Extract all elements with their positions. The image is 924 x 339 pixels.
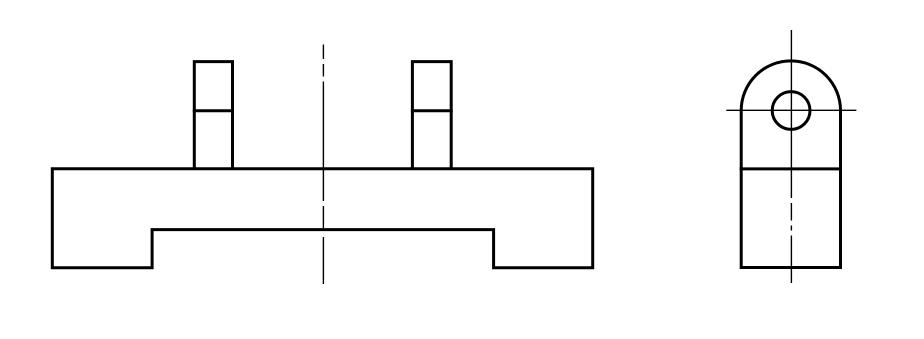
- front view: right post: [412, 62, 451, 169]
- front view: right post divider line: [411, 109, 453, 112]
- front view: base outline: [52, 169, 592, 268]
- side view: horizontal centerline through hole: [726, 109, 856, 111]
- front view: vertical centerline (dash-dot): [322, 45, 324, 285]
- front view: left post: [194, 62, 232, 169]
- side view: outline with semicircular top: [741, 61, 840, 268]
- front view: left post divider line: [193, 109, 234, 112]
- side view: vertical centerline (dash-dot): [790, 30, 792, 283]
- side view: hole circle: [772, 92, 810, 130]
- side view: divider line (base top): [740, 167, 842, 170]
